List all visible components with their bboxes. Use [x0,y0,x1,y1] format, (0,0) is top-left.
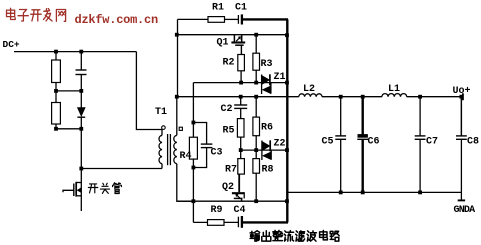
svg-text:C6: C6 [368,137,380,148]
svg-text:C8: C8 [467,137,479,148]
svg-text:C3: C3 [211,148,223,159]
svg-text:DC+: DC+ [3,39,20,50]
svg-text:C7: C7 [426,137,438,148]
svg-text:Z2: Z2 [274,138,286,149]
svg-text:Uo+: Uo+ [453,86,471,97]
svg-text:Z1: Z1 [274,72,286,83]
svg-text:R3: R3 [261,59,273,70]
svg-text:C1: C1 [235,3,247,14]
svg-text:C5: C5 [322,137,334,148]
svg-text:R1: R1 [212,3,224,14]
svg-text:dzkfw.com.cn: dzkfw.com.cn [75,13,158,27]
svg-text:R9: R9 [211,205,223,216]
svg-text:R7: R7 [225,165,237,176]
svg-text:R2: R2 [223,58,235,69]
svg-text:Q2: Q2 [222,182,234,193]
svg-text:Q1: Q1 [217,38,229,49]
svg-text:R8: R8 [262,165,274,176]
svg-text:R6: R6 [261,123,273,134]
svg-text:R4: R4 [180,151,192,162]
svg-text:L2: L2 [303,84,315,95]
svg-text:GNDA: GNDA [454,205,476,216]
svg-text:L1: L1 [388,84,400,95]
svg-text:C2: C2 [221,104,233,115]
svg-text:R5: R5 [223,126,235,137]
svg-text:C4: C4 [234,205,246,216]
svg-text:T1: T1 [155,107,167,118]
